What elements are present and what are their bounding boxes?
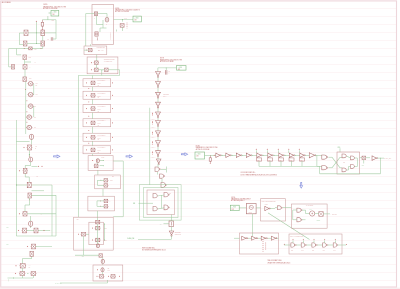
block K4 control [74,217,114,250]
transistor L2c [111,275,115,279]
block J6 flash cell 6 [83,146,111,154]
transistor M3 [23,77,27,82]
crystal component [169,221,174,227]
gate E4 [323,243,327,247]
svg-text:FLASH CELL 6: FLASH CELL 6 [98,146,106,149]
buffer D4 [272,236,276,240]
transistor M11 [23,228,27,233]
pull-up box PUB [268,158,273,161]
transistor M16 [20,272,25,276]
wire out [377,157,384,159]
wire [284,154,289,156]
svg-text:1P: 1P [47,38,49,40]
wire [316,244,322,246]
wire bottom node [17,48,29,50]
svg-text:1N4: 1N4 [35,49,37,51]
transistor K4b [96,226,100,230]
svg-text:+_OE_OUT: +_OE_OUT [330,214,337,216]
jumper component [362,156,366,159]
power box B5 [230,205,239,210]
wire [262,154,267,156]
gate NUL [153,194,157,198]
wires [302,209,306,211]
svg-text:+ X 41-0 X: + X 41-0 X [150,147,155,149]
loop wires [292,210,294,220]
block K3 [88,196,115,211]
svg-text:NOTE:: NOTE: [43,4,48,6]
svg-text:NOT BE BROUGHT/FREQUENT CELLS: NOT BE BROUGHT/FREQUENT CELLS [142,249,166,251]
gate RD2 [277,206,281,210]
capacitor C3 [165,68,167,70]
wire FLASH_OE [60,282,108,284]
buffer B6 [268,153,272,157]
wire [157,137,159,141]
wire far-left rail [8,49,10,67]
svg-text:PU1: PU1 [301,250,304,252]
wire stub [292,240,294,243]
block J3 flash cell 3 [83,105,111,113]
svg-text:BIAS: BIAS [102,156,105,159]
resistor R2 [209,155,211,158]
wire G left out [86,13,92,15]
transistor M13 [32,244,36,249]
mos pair ME2 [28,93,33,97]
latch wires [347,156,351,158]
transistor Q4 [41,41,45,46]
svg-text:+ X: + X [29,264,31,266]
transistor M7 [27,182,31,188]
left J rail [77,76,79,218]
pull-up box PUB [257,158,262,161]
transistor K1a [96,159,99,163]
svg-text:FLASH CELL 2: FLASH CELL 2 [98,92,106,95]
wire [157,98,159,102]
svg-text:W/L: W/L [36,94,38,96]
svg-text:8MHZ: 8MHZ [249,212,252,214]
wire into gates [315,154,322,156]
background banding [1,8,397,9]
mos pair ME3 [28,104,33,108]
transistor M5 [29,157,33,162]
current source I1 [29,134,33,139]
inverter chain [157,68,159,72]
wire [24,174,26,178]
capacitor dashes [262,241,264,252]
wires cluster E top [16,184,27,186]
transistor M2b [23,65,27,70]
block J4 flash cell 4 [83,119,111,127]
svg-text:FLASH_WE: FLASH_WE [127,237,134,240]
gate NLL [153,207,157,211]
buffer B8 [289,153,293,157]
wire node rail [42,19,56,21]
svg-text:VSS: VSS [362,165,365,167]
wire G bottom out [90,44,92,46]
mos pair ME4 [27,115,32,119]
gate FLL [342,168,346,172]
wire with marks [32,165,38,167]
svg-text:+ X 41-0 X: + X 41-0 X [150,157,155,159]
wire [231,154,236,156]
wire Q2 down to Q4 [42,36,44,41]
blue arrow 1 [54,155,60,158]
buffer B2 [226,153,230,157]
inverter V4 [156,102,161,107]
svg-text:+_VDD: +_VDD [52,12,57,14]
inner box K4 [89,222,103,245]
wire [221,154,225,156]
wire [45,32,57,34]
wire [277,237,279,239]
svg-text:1V8: 1V8 [52,14,55,16]
svg-text:10/2: 10/2 [29,56,32,58]
transistor M10 [29,221,33,226]
svg-text:XT: XT [160,223,162,225]
gate NUR [164,193,168,197]
block watchdog [291,204,327,228]
transistor L2b [100,275,104,279]
transistor K4a [96,220,100,224]
svg-text:+_VDD: +_VDD [134,17,139,19]
left long rail [15,120,17,236]
svg-text:+_VDD: +_VDD [231,207,236,209]
svg-text:WATCHDOG: WATCHDOG [306,204,313,207]
oscillator OSC1 [246,204,256,214]
blue arrow 2 [126,155,132,158]
wire [242,154,246,156]
inverter W3 [156,131,161,136]
wire [92,76,94,79]
svg-text:+ X 41-0 X: + X 41-0 X [150,137,155,139]
svg-text:1V8: 1V8 [178,69,181,71]
transistor K2a [104,179,108,182]
svg-text:X: X [110,201,111,203]
svg-text:CLOCK RECOVERY PLL:: CLOCK RECOVERY PLL: [241,172,257,174]
transistor M12 [34,228,38,233]
wire [327,244,333,246]
svg-text:+ X 41-0 X: + X 41-0 X [150,127,155,129]
inverter W6 [157,157,159,159]
svg-text:RING / EDGE DETECTOR: RING / EDGE DETECTOR [262,200,276,202]
svg-text:PU1: PU1 [291,250,294,252]
svg-text:NOTE:: NOTE: [160,58,165,60]
wire [27,230,35,232]
wire jog [31,140,33,145]
block N latch [147,190,175,215]
inverter W2 [156,121,161,126]
wire VSS under K4 [75,254,99,256]
wire down to F [31,257,33,259]
block FF latch [337,152,360,174]
wire K3-K4 [97,211,99,220]
buffer B5 [257,153,261,157]
gate XA [322,155,327,159]
cross wiring [329,156,333,158]
wire [306,244,312,246]
svg-text:HIGH VOLTAGE WILL: HIGH VOLTAGE WILL [142,246,155,249]
wire [256,207,260,209]
transistor Q3 [23,41,27,46]
transistor M9 [23,212,27,216]
wire stub with tick [35,22,37,33]
inverter V1 [156,72,161,77]
block I2 current mirror [87,57,118,74]
svg-text:X: X [169,73,170,75]
wire [239,207,246,209]
svg-text:+_VDD: +_VDD [177,67,182,69]
svg-text:FLASH_OE: FLASH_OE [55,282,62,285]
buffer D1 [242,236,246,240]
wire [157,147,159,151]
pull-up box PUB [279,158,284,161]
transistor M6 [23,168,27,173]
transistor Q2 [41,30,45,36]
wire [301,161,303,166]
block K1 bias [88,156,113,171]
svg-text:4/2: 4/2 [29,266,31,268]
transistor T1 [95,61,99,64]
transistor M8 [28,193,32,198]
wire [252,154,257,156]
transistor K4c [96,238,100,242]
transistor Q5 [29,47,32,50]
block J2 flash cell 2 [83,91,111,99]
pull-up box PUB [300,158,305,161]
svg-text:WE: WE [133,203,135,205]
wire K2-K3 [102,189,104,196]
component under K4 [99,254,102,257]
wire [92,87,94,91]
transistor M15 [20,264,25,268]
wires inside G [92,13,94,15]
svg-text:PU1: PU1 [323,250,326,252]
wire [269,161,271,166]
wire top J rail [78,75,119,77]
transistor below [101,259,104,263]
wire [157,88,159,93]
transistor T2 [95,68,99,72]
inverter W5 [156,151,161,156]
transistor Q1 [24,30,28,36]
svg-text:P: P [94,18,95,20]
squiggle mark [97,37,98,40]
svg-text:RING: RING [265,204,268,206]
wire between Q1 Q2 [28,32,41,34]
buffer B4 [246,153,250,157]
block L2 output driver [93,265,123,281]
wire [305,154,309,156]
wire [24,69,26,77]
inverter W7 counter reset [170,227,172,232]
gate FUR [351,156,355,160]
latch cross wires [158,195,164,196]
wire [273,154,278,156]
svg-text:CURRENT MIRROR: CURRENT MIRROR [104,58,115,60]
svg-text:1V8: 1V8 [232,209,235,211]
svg-text:COUNTER: COUNTER [163,94,169,96]
svg-text:WE: WE [77,219,79,221]
inverter W1 [156,112,161,117]
wire [366,157,370,159]
wire K1-K2 [97,170,99,175]
svg-text:10/2: 10/2 [29,78,32,80]
gate WA [297,208,301,212]
block J1 flash cell 1 [83,79,111,87]
svg-text:PU1: PU1 [312,250,315,252]
buffer B9 [300,153,304,157]
transistor T3 [105,68,109,72]
buffer RD1 [265,206,269,210]
wire K right rail [113,160,123,162]
svg-text:+1V8: +1V8 [124,18,127,20]
wire out [338,244,346,246]
transistor M4 [28,145,32,150]
gate NLR [164,205,168,210]
gate FLR [351,165,355,169]
wire down from latch [170,215,172,222]
block ring edge detector [261,199,286,221]
mos pair ME1 [28,82,33,86]
svg-text:FLASH_CLK: FLASH_CLK [384,157,391,160]
svg-text:FLASH CELL: FLASH CELL [109,32,112,39]
svg-text:W/L: W/L [34,105,36,107]
svg-text:VSS: VSS [82,256,85,258]
svg-text:RESET: RESET [317,220,321,222]
component WX [319,212,323,217]
svg-text:W: W [35,62,37,64]
wire [258,161,260,166]
wire [22,268,24,272]
wire FF out [360,157,363,159]
return wire [379,158,381,174]
svg-text:10/2: 10/2 [108,270,111,272]
wire [29,151,31,158]
capacitor C1 [50,37,52,40]
svg-text:TIME CONSTANT 50NS: TIME CONSTANT 50NS [267,259,281,262]
blue arrow 3 [181,153,187,156]
svg-text:CURRENT REF: CURRENT REF [97,47,106,49]
wire rail down-left [16,49,18,55]
svg-text:VSS: VSS [6,227,9,229]
wire [29,198,31,205]
svg-text:+15: +15 [35,146,37,148]
svg-text:WE 1: WE 1 [110,180,113,182]
svg-text:FLASH CELL 1: FLASH CELL 1 [98,79,106,82]
transistor N1 [95,32,98,36]
svg-text:1P: 1P [169,71,171,73]
wire left branch [19,32,24,34]
wire [266,237,271,239]
svg-text:USED 50/50: USED 50/50 [175,234,182,236]
wire [92,141,94,146]
svg-text:RS: RS [169,193,171,195]
wire rail ellipse column [25,82,27,135]
wire [92,113,94,119]
blue arrow down [300,183,303,189]
wire [247,237,252,239]
svg-text:SET = 1UA: SET = 1UA [98,49,104,52]
transistor K3a [104,199,108,202]
transistor in I1 [88,48,92,51]
pull-up box PUB [289,158,294,161]
transistor L2a [101,268,104,272]
gate FUL [342,154,346,158]
gate E1 [291,243,295,247]
svg-text:PU1: PU1 [333,250,336,252]
resistor R1 [41,20,43,23]
svg-text:+_VDD: +_VDD [196,153,201,155]
power box B4 [195,152,205,159]
svg-text:W/L: W/L [34,116,36,118]
wire [157,78,159,82]
transistor K4e [81,232,85,236]
block delay right [289,234,342,254]
buffer B10 [309,153,315,158]
buffer D3 [261,236,265,240]
wire [92,127,94,133]
svg-text:VSS: VSS [6,244,9,246]
gate G3 [161,183,165,188]
wire [30,162,32,166]
wire I1-I2 [96,55,98,62]
wire Q3-Q4 [27,43,41,45]
transistor M1 [23,55,27,60]
inverter V3 [156,92,161,97]
feedback loop outer [139,185,181,220]
svg-text:FLASH CELL 3: FLASH CELL 3 [98,105,106,108]
wire [280,161,282,166]
buffer B7 [279,153,283,157]
svg-text:X: X [30,67,31,69]
transistor M14 [30,251,34,256]
gate G2 [160,174,164,178]
wire [36,245,53,247]
svg-text:DELAY CLUSTER 50NS: DELAY CLUSTER 50NS [290,235,303,238]
power box B3 [177,66,187,71]
wire detector to watchdog [283,207,292,209]
power box B2 [133,16,141,22]
gate WB [297,218,301,222]
wire from B1 down [47,16,49,20]
transistor M17 [31,272,36,276]
power node +VDD box B1 [51,10,59,16]
transistor P1 [94,12,97,16]
transistor K4d [96,244,99,248]
svg-text:COUNTER: COUNTER [175,232,181,234]
transistor K2b [104,184,108,187]
svg-text:VSS: VSS [8,279,10,282]
gate E2 [301,243,305,247]
wire cap to rail [53,38,56,40]
wire [158,67,177,69]
gate G1 [155,167,159,171]
wire G right out [114,18,134,20]
inverter V2 [156,82,161,87]
wire stub [313,240,315,243]
wire [92,99,94,104]
clock rail wire [205,154,216,156]
wire [257,237,261,239]
wire [157,108,159,112]
wire loop [161,169,167,171]
wire [157,127,159,131]
svg-text:ALL FLASH: ALL FLASH [2,1,12,4]
wire FLASH_WE [170,236,172,240]
svg-text:FLASH CELL 4: FLASH CELL 4 [98,119,106,122]
wire osc down [252,214,254,236]
block I1 current ref [84,46,107,55]
feedback loop inner [144,188,179,218]
